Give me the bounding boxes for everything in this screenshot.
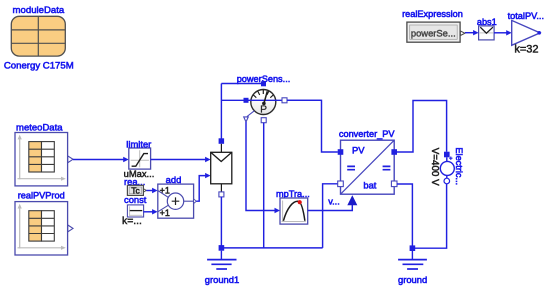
svg-text:PV: PV (352, 144, 365, 155)
svg-text:realPVProd: realPVProd (18, 191, 65, 201)
wire realExpression to abs1 (465, 30, 479, 35)
block const (127, 205, 143, 217)
svg-text:totalPV...: totalPV... (508, 11, 544, 21)
svg-text:ground: ground (398, 274, 427, 285)
powerSensor (gauge) (244, 81, 322, 122)
voltage source ElectricBase (440, 152, 454, 184)
wire abs1 to gain (494, 30, 512, 35)
block limiter (129, 148, 151, 169)
ground symbol (398, 251, 427, 269)
wire source - to ground node (415, 184, 447, 248)
block mpTracker (280, 198, 308, 224)
svg-text:v...: v... (328, 196, 340, 206)
svg-text:limiter: limiter (126, 139, 151, 150)
svg-text:Electric...: Electric... (454, 147, 464, 185)
svg-text:+1: +1 (160, 186, 170, 196)
wire mpTracker to converter vRef (308, 195, 358, 210)
junction ground1 node (219, 245, 323, 251)
wire sensor nv to ground1 node (263, 123, 265, 248)
svg-text:bat: bat (363, 180, 376, 191)
gain totalPV triangle (512, 20, 541, 45)
svg-text:ground1: ground1 (205, 274, 239, 285)
svg-text:realExpression: realExpression (402, 9, 463, 19)
wire converter bat+ to ground node (397, 184, 412, 248)
wire node pv-plus (module top / sensor pc / sensor pv) (221, 84, 263, 141)
block meteoData (CombiTable) (15, 133, 73, 186)
wire add to pvModule input2 (196, 173, 210, 201)
wire converter PV- to DC source + (397, 101, 447, 153)
pvModule block (211, 138, 232, 197)
wire sensor nc to converter PV+ (287, 100, 338, 152)
svg-text:mpTra...: mpTra... (276, 189, 310, 199)
wire const to add input2 (143, 209, 157, 214)
wire converter bat- to ground1 node (323, 184, 338, 248)
svg-text:moduleData: moduleData (13, 5, 65, 16)
block add (158, 184, 197, 218)
block abs1 (479, 26, 495, 40)
block realPVProd (CombiTable) (15, 202, 73, 255)
svg-text:V=400 V: V=400 V (429, 148, 440, 186)
wire module bottom to ground1 node (220, 197, 222, 248)
svg-text:add: add (166, 174, 182, 185)
svg-text:meteoData: meteoData (16, 122, 63, 133)
svg-text:k=32: k=32 (514, 44, 538, 56)
junction ground node (410, 245, 416, 251)
svg-text:powerSe...: powerSe... (411, 28, 456, 39)
block converter_PV (338, 140, 397, 194)
svg-text:k=...: k=... (122, 216, 142, 227)
ground1 symbol (207, 251, 236, 269)
wire meteoData to limiter (73, 157, 129, 162)
wire sensor power output to mpTracker (246, 122, 280, 213)
svg-text:Conergy C175M: Conergy C175M (4, 60, 74, 71)
wire Tc to add input1 (146, 188, 157, 193)
svg-text:const: const (124, 194, 147, 205)
svg-text:converter_PV: converter_PV (339, 129, 396, 139)
svg-text:+1: +1 (160, 208, 170, 218)
record moduleData icon (11, 16, 65, 56)
block Tc expression (127, 185, 146, 195)
svg-text:P: P (260, 105, 267, 116)
wire limiter to pvModule input1 (151, 157, 211, 162)
block realExpression (407, 22, 465, 42)
